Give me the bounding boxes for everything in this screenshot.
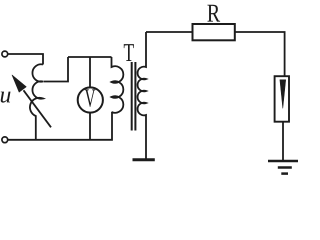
wire resistor to right corner <box>235 32 285 77</box>
ground (secondary) <box>133 158 155 161</box>
earth ground right <box>268 160 298 163</box>
transformer core <box>131 62 133 131</box>
wire device to ground <box>282 122 284 160</box>
top wire secondary to resistor <box>146 31 193 33</box>
voltmeter V <box>78 87 103 112</box>
bottom rail <box>8 112 112 140</box>
tap wire from coil <box>44 57 69 82</box>
terminal bottom-left <box>2 137 8 143</box>
transformer secondary winding <box>138 32 146 159</box>
label u <box>1 92 11 103</box>
top rail left circuit <box>68 56 112 58</box>
voltmeter branch top wire <box>89 57 91 88</box>
arrow inside device <box>280 80 286 108</box>
label V <box>85 89 96 107</box>
arrow (variable symbol) <box>24 90 52 127</box>
discharge device box <box>275 76 289 122</box>
variable autotransformer coil L1 <box>30 64 43 139</box>
label T <box>124 44 134 61</box>
voltmeter bottom wire <box>89 113 91 140</box>
terminal top-left <box>2 51 8 57</box>
resistor R box <box>193 24 235 40</box>
label R <box>207 5 220 22</box>
transformer primary winding <box>112 57 124 113</box>
wire from top terminal to coil top <box>8 54 43 65</box>
